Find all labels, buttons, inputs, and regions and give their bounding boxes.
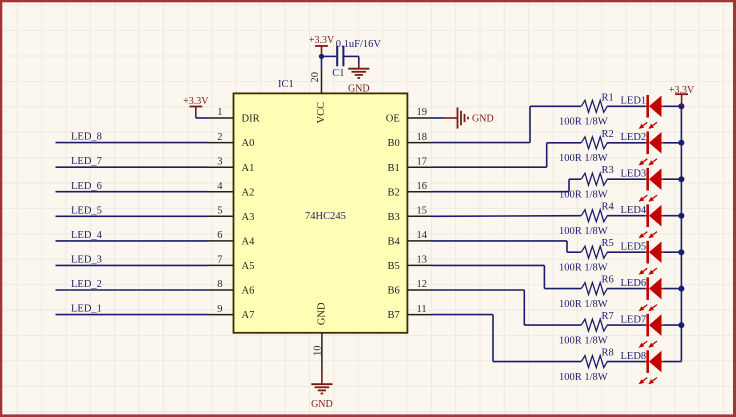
svg-text:GND: GND bbox=[311, 399, 333, 410]
svg-text:4: 4 bbox=[217, 181, 223, 192]
svg-text:GND: GND bbox=[317, 302, 328, 325]
svg-text:LED_4: LED_4 bbox=[71, 230, 103, 241]
svg-text:9: 9 bbox=[217, 304, 222, 315]
svg-text:2: 2 bbox=[217, 132, 222, 143]
svg-text:16: 16 bbox=[417, 181, 428, 192]
svg-text:LED_5: LED_5 bbox=[71, 205, 102, 216]
svg-text:A5: A5 bbox=[242, 261, 255, 272]
svg-text:B4: B4 bbox=[388, 237, 401, 248]
svg-text:11: 11 bbox=[417, 304, 427, 315]
svg-text:R7: R7 bbox=[602, 311, 614, 322]
svg-text:18: 18 bbox=[417, 132, 428, 143]
svg-text:LED_2: LED_2 bbox=[71, 279, 102, 290]
svg-text:LED5: LED5 bbox=[621, 242, 647, 253]
svg-text:100R 1/8W: 100R 1/8W bbox=[559, 372, 608, 383]
svg-text:A6: A6 bbox=[242, 286, 255, 297]
svg-text:VCC: VCC bbox=[316, 102, 327, 124]
svg-text:A4: A4 bbox=[242, 237, 256, 248]
svg-text:13: 13 bbox=[417, 255, 428, 266]
svg-text:LED_7: LED_7 bbox=[71, 156, 102, 167]
svg-text:R8: R8 bbox=[602, 348, 614, 359]
svg-text:74HC245: 74HC245 bbox=[305, 211, 346, 222]
svg-text:LED_6: LED_6 bbox=[71, 181, 102, 192]
svg-text:8: 8 bbox=[217, 279, 222, 290]
svg-text:3: 3 bbox=[217, 156, 222, 167]
svg-text:12: 12 bbox=[417, 279, 428, 290]
svg-text:OE: OE bbox=[386, 114, 400, 125]
svg-text:LED6: LED6 bbox=[621, 278, 647, 289]
svg-text:GND: GND bbox=[472, 114, 494, 125]
svg-text:6: 6 bbox=[217, 230, 222, 241]
svg-text:R2: R2 bbox=[602, 129, 614, 140]
svg-text:LED3: LED3 bbox=[621, 169, 647, 180]
svg-text:15: 15 bbox=[417, 206, 428, 217]
svg-text:100R 1/8W: 100R 1/8W bbox=[559, 335, 608, 346]
svg-text:A2: A2 bbox=[242, 187, 255, 198]
svg-text:A1: A1 bbox=[242, 163, 255, 174]
svg-text:7: 7 bbox=[217, 255, 222, 266]
svg-text:B1: B1 bbox=[388, 163, 400, 174]
svg-text:B3: B3 bbox=[388, 212, 400, 223]
svg-text:B6: B6 bbox=[388, 286, 400, 297]
svg-text:10: 10 bbox=[312, 346, 323, 357]
svg-text:A7: A7 bbox=[242, 310, 255, 321]
svg-text:1: 1 bbox=[217, 107, 222, 118]
svg-text:R4: R4 bbox=[602, 202, 615, 213]
svg-text:LED_3: LED_3 bbox=[71, 255, 102, 266]
svg-text:B7: B7 bbox=[388, 310, 400, 321]
svg-text:20: 20 bbox=[310, 72, 321, 83]
svg-text:B5: B5 bbox=[388, 261, 400, 272]
svg-text:R5: R5 bbox=[602, 238, 614, 249]
svg-text:GND: GND bbox=[348, 84, 370, 95]
svg-text:B2: B2 bbox=[388, 187, 400, 198]
svg-text:IC1: IC1 bbox=[278, 79, 294, 90]
svg-text:100R 1/8W: 100R 1/8W bbox=[559, 117, 608, 128]
svg-text:LED_8: LED_8 bbox=[71, 132, 102, 143]
svg-text:R6: R6 bbox=[602, 275, 614, 286]
svg-text:LED_1: LED_1 bbox=[71, 304, 102, 315]
svg-text:17: 17 bbox=[417, 156, 428, 167]
svg-text:5: 5 bbox=[217, 206, 222, 217]
svg-text:100R 1/8W: 100R 1/8W bbox=[559, 299, 608, 310]
svg-text:R1: R1 bbox=[602, 92, 614, 103]
svg-text:DIR: DIR bbox=[242, 114, 260, 125]
svg-text:LED2: LED2 bbox=[621, 132, 647, 143]
svg-text:14: 14 bbox=[417, 230, 428, 241]
svg-text:LED1: LED1 bbox=[621, 96, 647, 107]
svg-text:A0: A0 bbox=[242, 138, 255, 149]
svg-text:100R 1/8W: 100R 1/8W bbox=[559, 189, 608, 200]
svg-text:0.1uF/16V: 0.1uF/16V bbox=[336, 39, 382, 50]
svg-text:100R 1/8W: 100R 1/8W bbox=[559, 153, 608, 164]
svg-text:LED8: LED8 bbox=[621, 351, 647, 362]
svg-text:+3.3V: +3.3V bbox=[309, 35, 335, 46]
svg-text:A3: A3 bbox=[242, 212, 255, 223]
svg-text:+3.3V: +3.3V bbox=[183, 96, 209, 107]
svg-text:C1: C1 bbox=[332, 68, 344, 79]
svg-text:100R 1/8W: 100R 1/8W bbox=[559, 262, 608, 273]
svg-text:R3: R3 bbox=[602, 165, 614, 176]
svg-text:100R 1/8W: 100R 1/8W bbox=[559, 226, 608, 237]
svg-text:19: 19 bbox=[417, 107, 428, 118]
svg-text:LED4: LED4 bbox=[621, 205, 647, 216]
svg-text:B0: B0 bbox=[388, 138, 400, 149]
svg-text:LED7: LED7 bbox=[621, 315, 647, 326]
